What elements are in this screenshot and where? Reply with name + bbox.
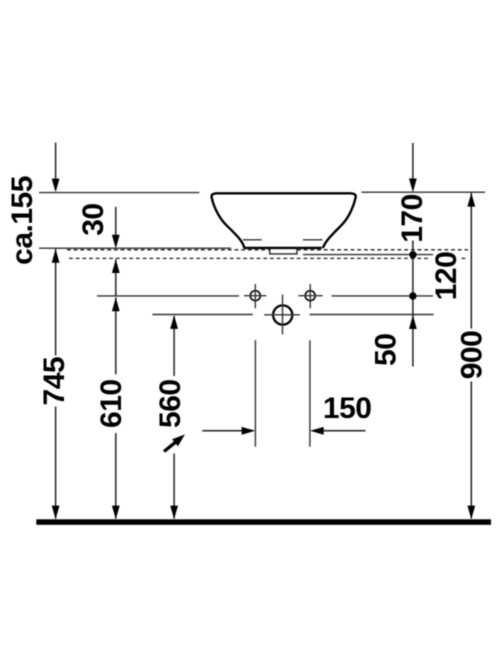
mounting direction diagonal arrow <box>164 442 176 452</box>
dimension 30 bottom arrow / 610 line <box>115 259 117 296</box>
dimension ca.155 top arrow <box>55 143 57 181</box>
dimension 50 bottom arrow <box>409 315 417 329</box>
node rim-level line left (900/ca.155 reference, y=192) <box>39 192 199 194</box>
svg-text:ca.155: ca.155 <box>6 176 39 265</box>
faucet hole left <box>250 291 260 301</box>
node 610-level line <box>97 295 239 297</box>
node dot at 120/50 junction <box>409 292 416 299</box>
dimension 170 top arrow <box>412 143 414 180</box>
dimension 30 top arrow <box>115 207 117 236</box>
dimension 610 top arrow <box>115 298 117 375</box>
faucet hole right <box>305 291 315 301</box>
svg-text:560: 560 <box>154 379 187 428</box>
dimension 170/120/50 shared line <box>412 241 414 367</box>
drain hole center <box>273 305 292 324</box>
washbasin base line <box>244 247 322 249</box>
dimension 150 left arrow <box>202 430 243 432</box>
svg-text:50: 50 <box>370 334 403 366</box>
wire extension line left for 150 dim <box>254 340 256 447</box>
svg-text:30: 30 <box>77 203 110 235</box>
dimension 900 line <box>470 193 472 329</box>
svg-text:745: 745 <box>38 357 71 406</box>
node basin-bottom level line (170 below rim) <box>303 254 433 256</box>
dimension 150 right arrow <box>322 430 366 432</box>
node countertop solid line (745 level) <box>39 247 231 249</box>
node dot at 170/120 junction <box>409 251 416 258</box>
svg-text:150: 150 <box>323 392 372 425</box>
node floor line <box>36 519 491 525</box>
dimension 745 line with shared arrow <box>55 249 57 356</box>
node 560-level line <box>152 314 252 316</box>
washbasin inner foot edge right <box>303 239 323 241</box>
washbasin drain foot rectangle <box>270 249 297 254</box>
dimension 560 top arrow <box>173 316 175 376</box>
washbasin inner foot edge left <box>243 239 262 241</box>
svg-text:900: 900 <box>455 331 488 380</box>
svg-text:170: 170 <box>396 194 429 243</box>
svg-text:120: 120 <box>430 252 463 301</box>
svg-text:610: 610 <box>95 379 128 428</box>
node countertop dashed line <box>67 249 270 251</box>
washbasin outline <box>212 193 356 248</box>
node counter underside dashed line (715 level) <box>69 257 428 259</box>
node rim-level line right (y=192) <box>362 191 486 193</box>
wire extension line right for 150 dim <box>309 340 311 447</box>
